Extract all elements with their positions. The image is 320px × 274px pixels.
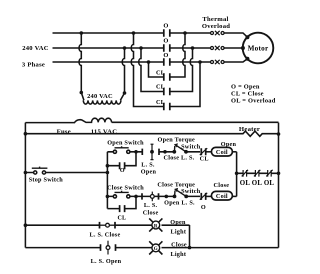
junction dots power section xyxy=(80,31,202,64)
thermal overload OL2 xyxy=(211,46,225,50)
label L. S. Open xyxy=(141,161,157,175)
left rail xyxy=(24,123,26,248)
svg-text:Switch: Switch xyxy=(181,188,201,195)
svg-text:CL: CL xyxy=(200,156,209,163)
svg-text:O: O xyxy=(201,204,206,211)
label Open Torque Switch xyxy=(158,137,201,151)
contact O3 xyxy=(164,58,170,65)
svg-text:OL = Overload: OL = Overload xyxy=(231,98,276,105)
contact O interlock xyxy=(200,193,207,200)
label Close Torque Switch xyxy=(157,181,200,195)
motor M1 xyxy=(241,33,273,64)
node L2 phase line middle xyxy=(53,47,243,49)
svg-text:CL: CL xyxy=(117,216,126,222)
contact OL3 xyxy=(266,170,272,177)
svg-text:Light: Light xyxy=(170,251,186,258)
wire close coil to OL bus xyxy=(232,195,236,197)
label L. S. Close xyxy=(143,202,159,216)
contact CL-B xyxy=(164,88,170,95)
contact O holding branch xyxy=(107,152,136,166)
node L1 phase line top xyxy=(53,33,248,37)
contact O2 xyxy=(164,44,170,51)
junction dots rails xyxy=(24,132,281,227)
svg-text:Stop Switch: Stop Switch xyxy=(29,176,64,183)
svg-text:L. S.: L. S. xyxy=(141,161,155,168)
svg-text:3 Phase: 3 Phase xyxy=(22,62,45,69)
close switch pushbutton branch xyxy=(107,195,136,197)
thermal overload OL3 xyxy=(211,60,225,64)
svg-text:Close: Close xyxy=(171,241,187,248)
close coil xyxy=(206,195,212,197)
wire L1 to transformer with hops xyxy=(79,33,81,93)
svg-text:CL: CL xyxy=(156,84,165,91)
svg-text:Switch: Switch xyxy=(181,143,201,150)
contact O1 xyxy=(164,29,170,36)
svg-text:O: O xyxy=(163,22,168,29)
svg-text:Close L. S.: Close L. S. xyxy=(164,155,195,162)
OL contacts row xyxy=(237,172,279,174)
svg-text:L. S. Open: L. S. Open xyxy=(91,258,122,265)
wire L1 to CL-C with hops xyxy=(131,33,164,107)
stop switch rung xyxy=(25,172,107,174)
stop switch pushbutton xyxy=(32,167,48,174)
light rung 2 xyxy=(25,247,278,249)
svg-text:Open Switch: Open Switch xyxy=(107,140,144,147)
svg-text:240 VAC: 240 VAC xyxy=(22,45,49,52)
svg-text:Open: Open xyxy=(170,219,186,226)
label Open Light xyxy=(170,219,187,236)
junction dot OL bus xyxy=(235,172,239,176)
label Close Light xyxy=(170,241,186,257)
legend xyxy=(231,84,276,105)
svg-text:L. S.: L. S. xyxy=(144,202,158,209)
right rail xyxy=(278,123,280,248)
contact OL1 xyxy=(242,170,248,177)
limit switch LS-Open lamp contact xyxy=(101,241,116,255)
limit switch LS-Close lamp contact xyxy=(100,222,116,229)
wire open coil to OL bus xyxy=(232,151,236,153)
heater rail xyxy=(25,131,278,136)
svg-text:Motor: Motor xyxy=(248,45,269,53)
svg-text:Coil: Coil xyxy=(216,193,228,200)
wire CL-B to L2 output with hop xyxy=(170,48,193,92)
limit switch LS-Open contact xyxy=(136,151,165,153)
transformer T1 primary xyxy=(80,91,127,104)
wire CL-A to L1 output with hops xyxy=(170,33,185,77)
contact CL holding branch xyxy=(107,196,136,208)
svg-text:R: R xyxy=(154,224,158,229)
svg-text:Overload: Overload xyxy=(202,23,230,30)
svg-text:Coil: Coil xyxy=(216,149,228,156)
lamp G close light xyxy=(149,241,162,254)
svg-text:Thermal: Thermal xyxy=(202,16,228,23)
limit switch LS-Close contact xyxy=(136,195,166,197)
svg-text:Close: Close xyxy=(143,209,159,216)
thermal overload OL1 xyxy=(211,31,225,35)
open torque switch xyxy=(165,151,200,153)
open switch pushbutton branch xyxy=(107,151,136,153)
label Thermal Overload xyxy=(202,16,230,30)
svg-text:Close: Close xyxy=(214,182,230,189)
svg-text:Light: Light xyxy=(170,228,186,235)
svg-text:O: O xyxy=(120,168,125,174)
OL bus vertical xyxy=(236,152,238,197)
light rung 1 xyxy=(25,224,189,226)
svg-text:O: O xyxy=(163,38,168,45)
control bus vertical xyxy=(106,152,108,209)
svg-text:CL: CL xyxy=(156,70,165,77)
open coil xyxy=(206,151,212,153)
contact CL interlock xyxy=(200,148,207,155)
node L3 phase line bottom xyxy=(53,59,248,62)
lamp R open light xyxy=(149,218,162,231)
svg-text:CL: CL xyxy=(156,99,165,106)
svg-text:240 VAC: 240 VAC xyxy=(87,93,113,100)
wire lamp rung connector xyxy=(189,225,191,248)
contact CL-C xyxy=(164,103,170,110)
fused rail 115 VAC xyxy=(25,118,278,122)
wire L2 to transformer with hop xyxy=(122,48,124,93)
wire CL-C to L3 output xyxy=(170,62,200,107)
close torque switch xyxy=(166,195,200,197)
svg-text:OL OL OL: OL OL OL xyxy=(240,180,275,187)
wire L2 to CL-B with hop xyxy=(139,48,164,92)
svg-text:Close Switch: Close Switch xyxy=(107,184,144,191)
contact OL2 xyxy=(254,170,260,177)
svg-text:Open L. S.: Open L. S. xyxy=(164,199,195,206)
svg-text:Open: Open xyxy=(221,141,237,148)
svg-text:G: G xyxy=(154,247,158,252)
svg-text:Heater: Heater xyxy=(239,126,260,133)
svg-text:O = Open: O = Open xyxy=(231,84,260,91)
svg-text:L. S. Close: L. S. Close xyxy=(90,232,121,239)
svg-text:CL = Close: CL = Close xyxy=(231,91,264,98)
svg-text:O: O xyxy=(163,52,168,59)
wire L3 to CL-A xyxy=(149,62,164,77)
contact CL-A xyxy=(164,73,170,80)
svg-text:Open: Open xyxy=(141,169,157,176)
